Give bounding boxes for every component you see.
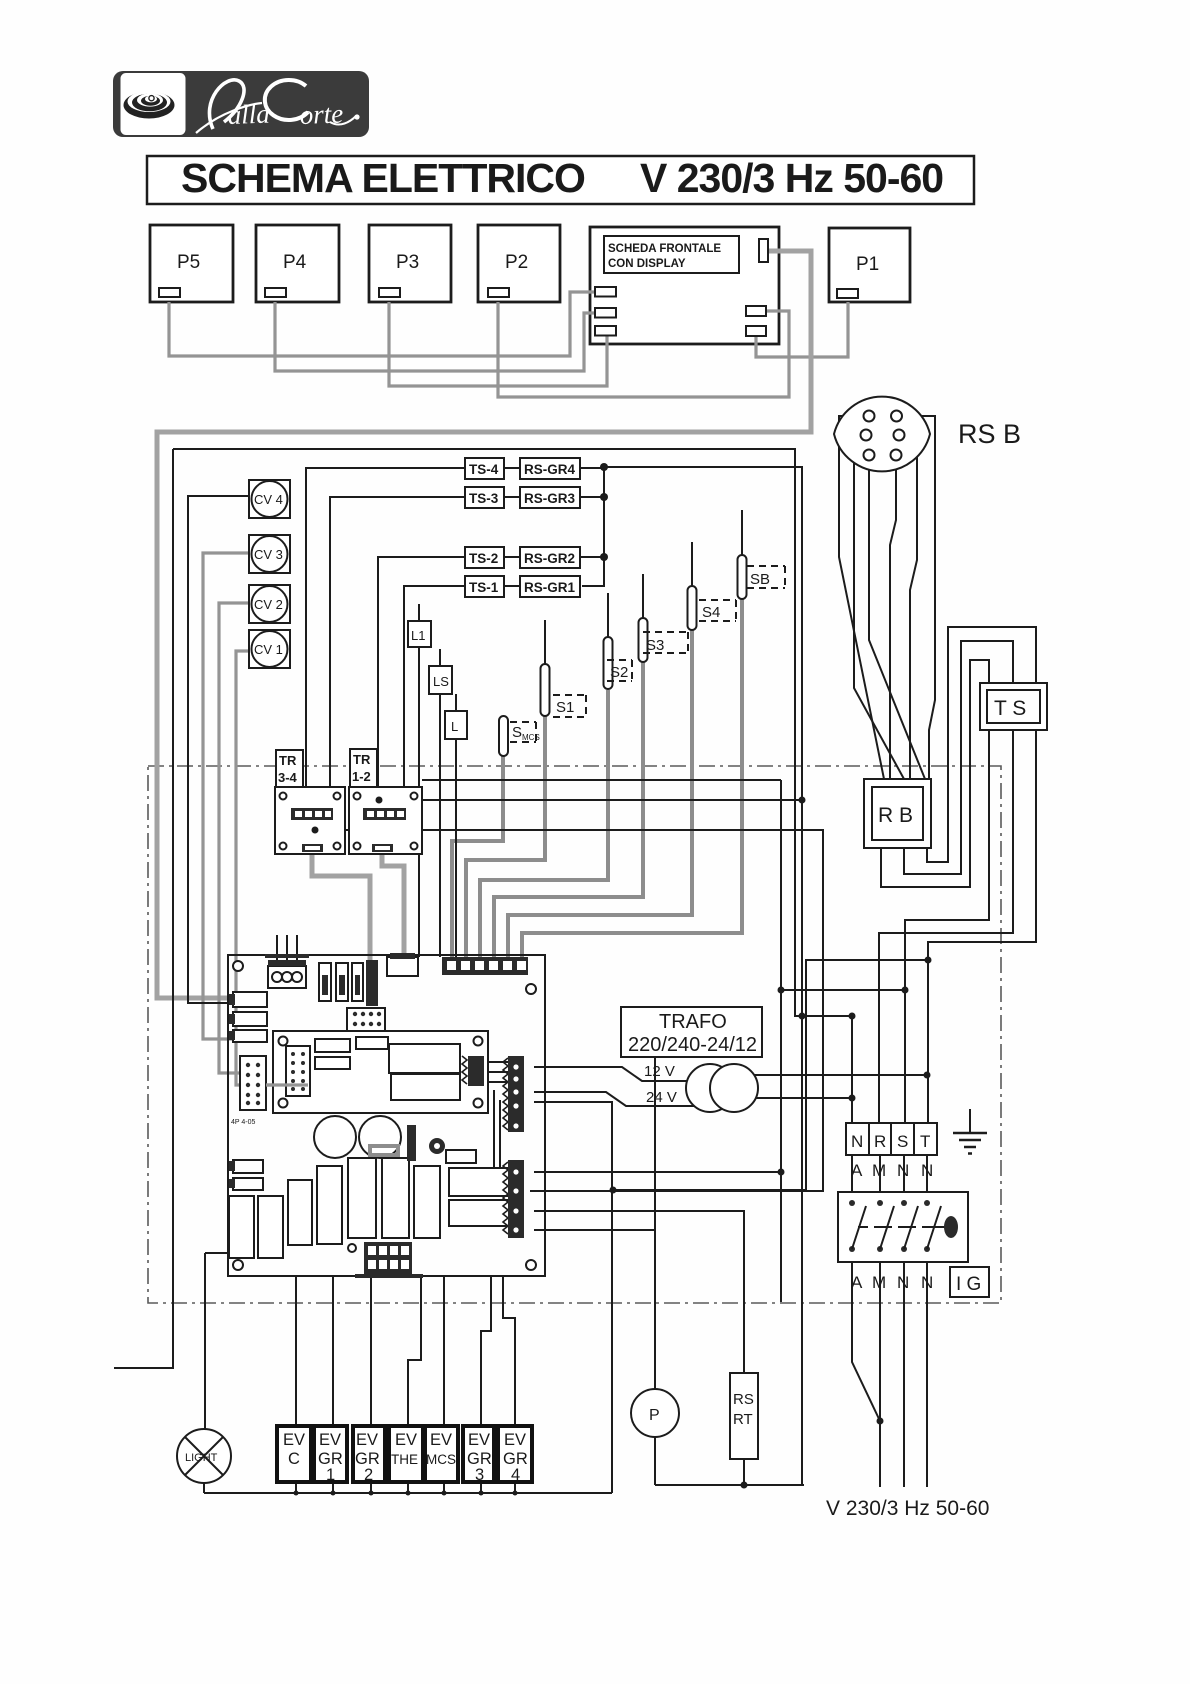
svg-text:alla: alla [227,99,270,130]
svg-text:N: N [897,1273,909,1292]
svg-text:EV: EV [395,1431,417,1449]
svg-text:1-2: 1-2 [352,769,371,784]
svg-text:1: 1 [326,1466,335,1484]
svg-text:CON DISPLAY: CON DISPLAY [608,258,686,270]
svg-text:N: N [851,1132,863,1151]
svg-text:R: R [874,1132,886,1151]
svg-text:RS-GR2: RS-GR2 [524,551,575,566]
svg-text:MCS: MCS [426,1452,456,1467]
svg-text:T: T [920,1132,930,1151]
svg-text:S: S [897,1132,908,1151]
svg-text:A: A [851,1273,863,1292]
svg-text:V 230/3 Hz 50-60: V 230/3 Hz 50-60 [640,155,943,201]
svg-text:4P 4-05: 4P 4-05 [231,1119,255,1126]
svg-text:RS-GR4: RS-GR4 [524,462,575,477]
svg-text:TS-4: TS-4 [469,462,499,477]
svg-text:P: P [649,1407,660,1424]
svg-text:P5: P5 [177,252,200,273]
svg-text:I G: I G [956,1274,981,1295]
svg-text:CV 3: CV 3 [254,547,283,562]
svg-text:3: 3 [475,1466,484,1484]
svg-text:TS-1: TS-1 [469,580,499,595]
svg-text:N: N [921,1273,933,1292]
svg-text:TRAFO: TRAFO [659,1011,727,1033]
svg-text:P1: P1 [856,254,879,275]
svg-text:EV: EV [356,1431,378,1449]
svg-text:220/240-24/12: 220/240-24/12 [628,1034,757,1056]
svg-text:S2: S2 [610,664,628,681]
svg-text:CV 2: CV 2 [254,597,283,612]
svg-text:TS-3: TS-3 [469,491,499,506]
svg-text:RT: RT [733,1411,753,1428]
svg-text:N: N [921,1161,933,1180]
svg-text:S3: S3 [646,637,664,654]
svg-text:A: A [851,1161,863,1180]
svg-text:THE: THE [391,1452,418,1467]
svg-text:SCHEDA FRONTALE: SCHEDA FRONTALE [608,243,721,255]
svg-text:CV 4: CV 4 [254,492,283,507]
svg-text:P3: P3 [396,252,419,273]
svg-text:TR: TR [353,752,371,767]
svg-text:N: N [897,1161,909,1180]
svg-text:C: C [288,1450,300,1468]
svg-text:LIGHT: LIGHT [185,1452,218,1464]
svg-text:RS: RS [733,1391,754,1408]
svg-text:SB: SB [750,571,770,588]
svg-text:EV: EV [319,1431,341,1449]
svg-text:EV: EV [468,1431,490,1449]
svg-text:M: M [872,1161,886,1180]
svg-text:RS B: RS B [958,419,1021,449]
svg-text:P4: P4 [283,252,307,273]
svg-text:P2: P2 [505,252,528,273]
svg-text:2: 2 [364,1466,373,1484]
svg-text:RS-GR1: RS-GR1 [524,580,575,595]
svg-text:V 230/3 Hz 50-60: V 230/3 Hz 50-60 [826,1497,989,1520]
svg-text:SCHEMA ELETTRICO: SCHEMA ELETTRICO [181,155,585,201]
svg-text:LS: LS [433,674,449,689]
svg-text:R B: R B [878,804,913,827]
svg-text:CV 1: CV 1 [254,642,283,657]
svg-text:L: L [451,719,458,734]
svg-text:3-4: 3-4 [278,770,298,785]
svg-text:12 V: 12 V [644,1063,675,1080]
svg-text:EV: EV [504,1431,526,1449]
svg-text:T S: T S [994,697,1026,720]
svg-text:4: 4 [511,1466,520,1484]
svg-text:M: M [872,1273,886,1292]
svg-text:EV: EV [430,1431,452,1449]
svg-text:RS-GR3: RS-GR3 [524,491,575,506]
svg-text:EV: EV [283,1431,305,1449]
svg-text:TS-2: TS-2 [469,551,498,566]
svg-text:S1: S1 [556,699,574,716]
svg-text:L1: L1 [411,628,425,643]
svg-text:TR: TR [279,753,297,768]
svg-text:S4: S4 [702,604,720,621]
svg-text:24 V: 24 V [646,1089,677,1106]
